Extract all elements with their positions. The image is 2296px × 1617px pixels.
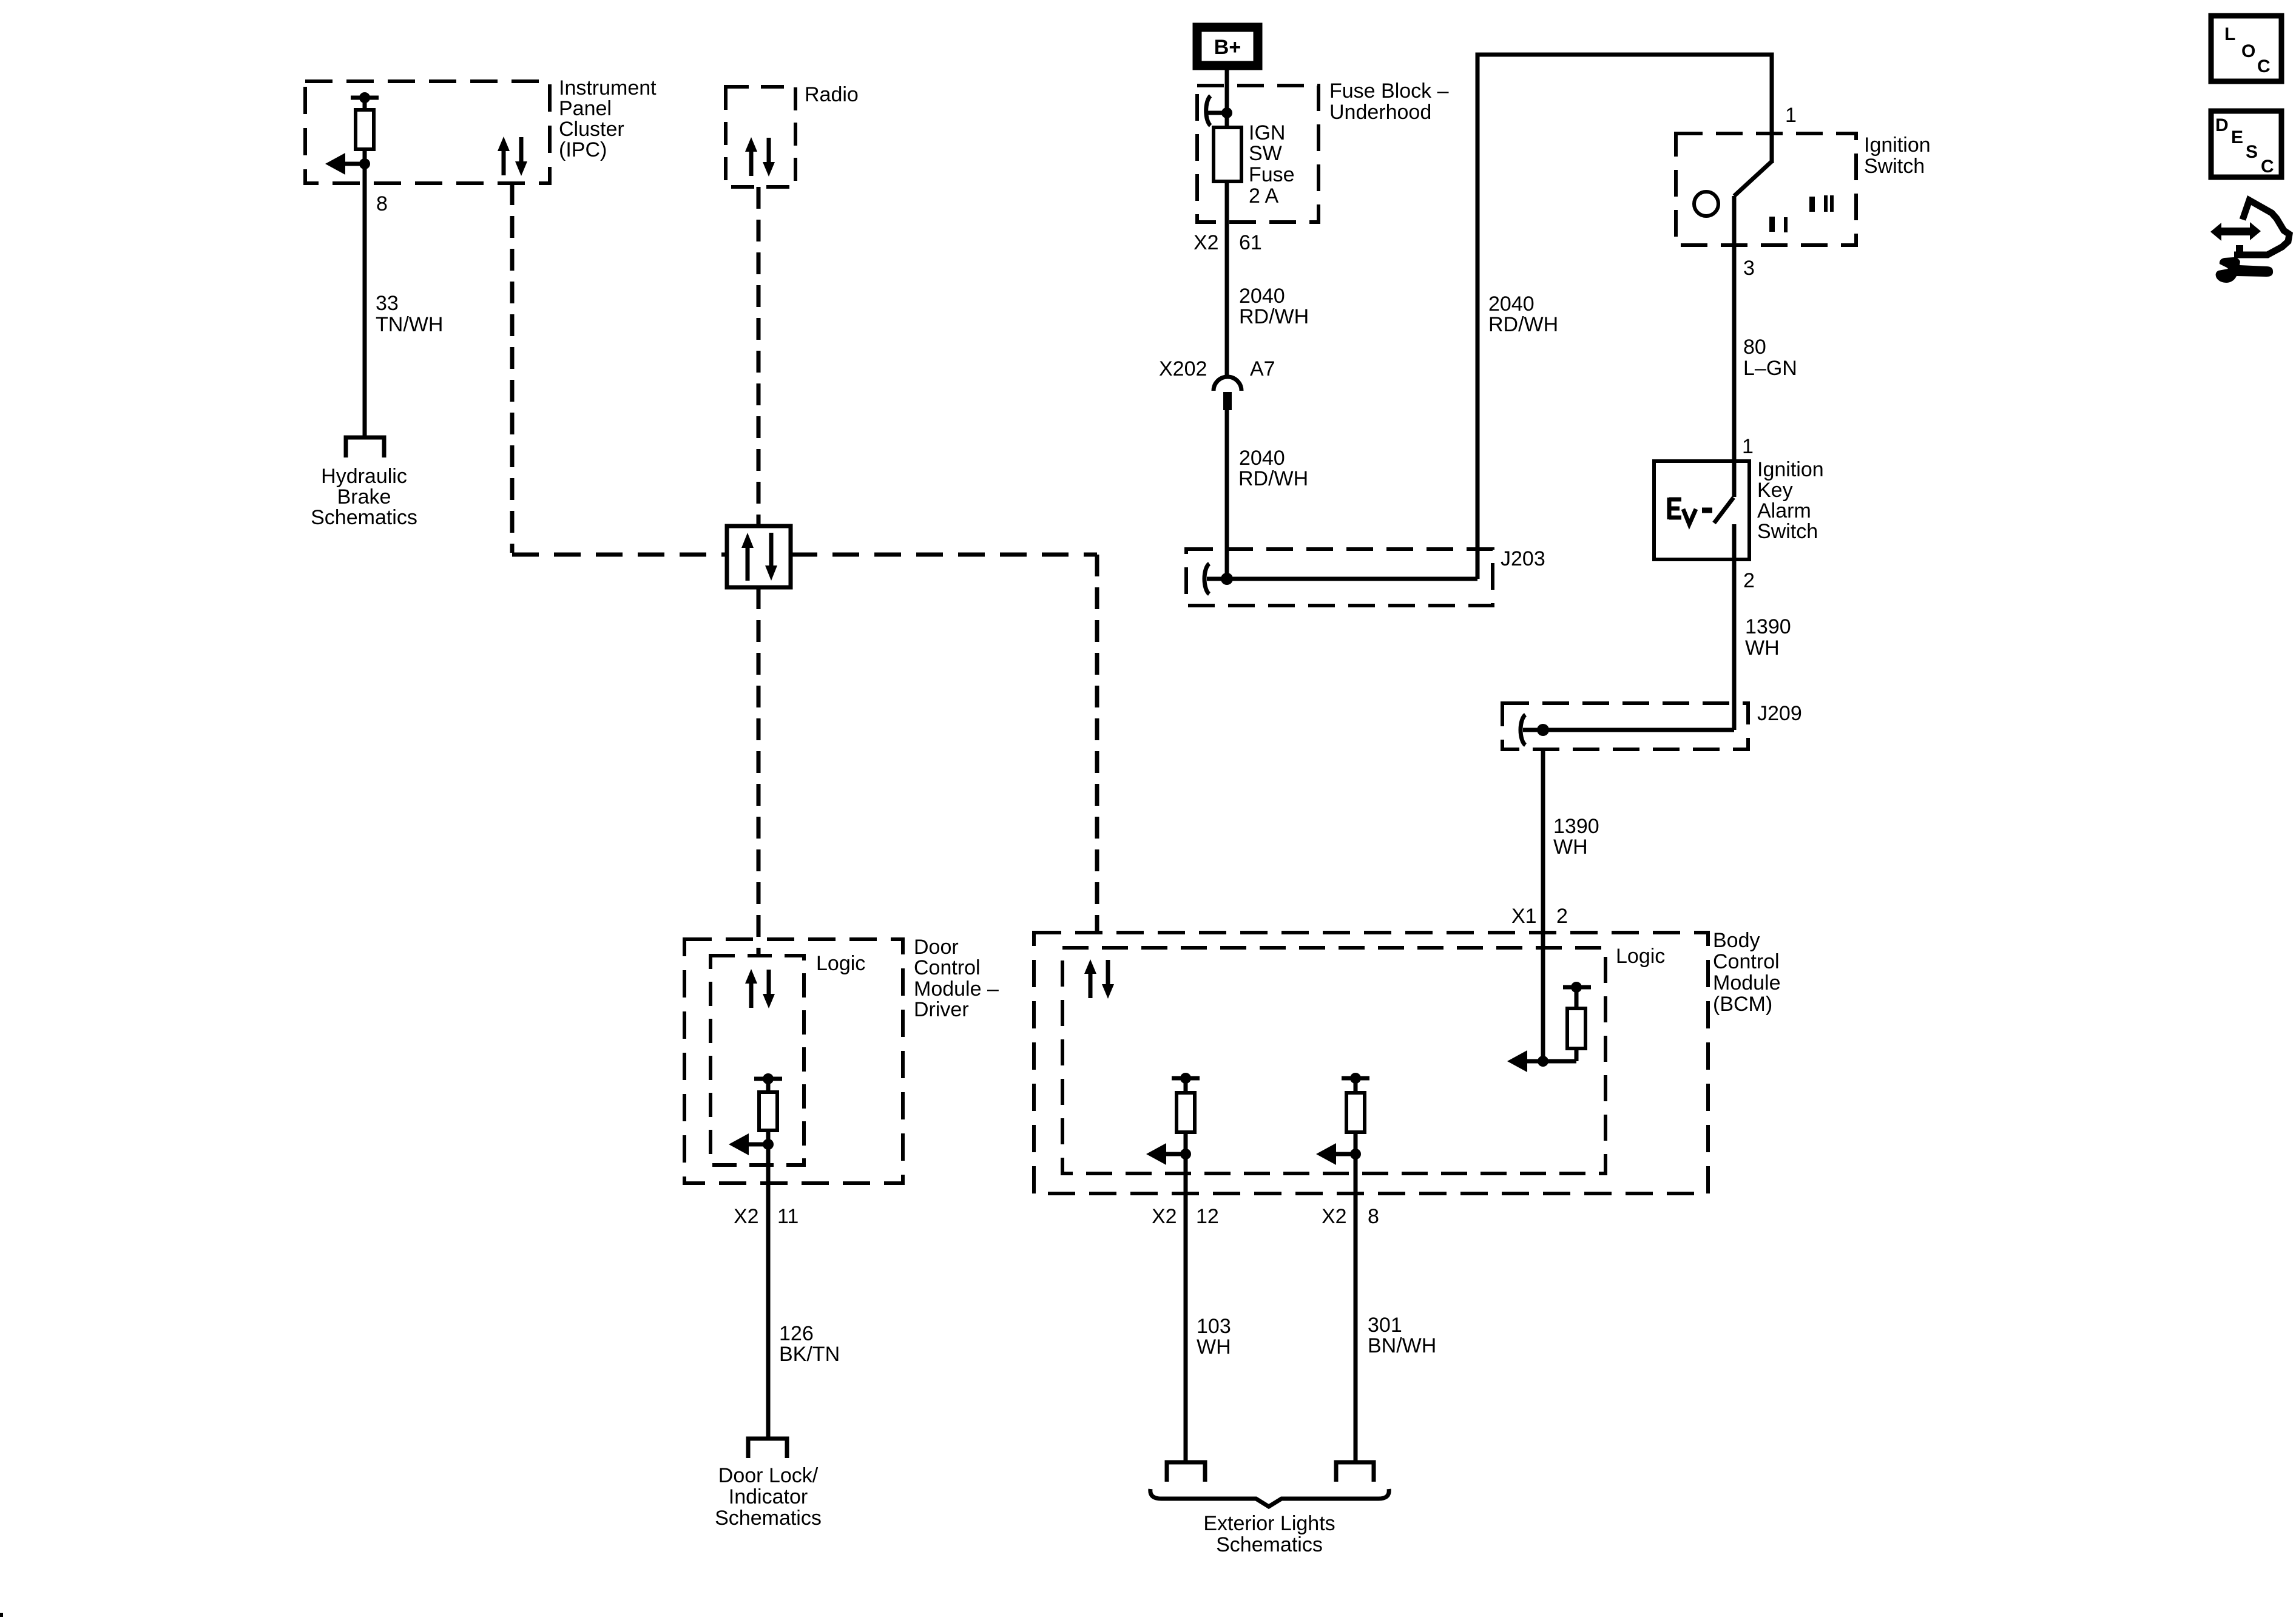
svg-text:Schematics: Schematics: [715, 1507, 822, 1530]
wire 1390 WH lower: [1541, 749, 1545, 1061]
svg-text:1390: 1390: [1553, 815, 1599, 838]
wire label 126 BK/TN: [779, 1322, 840, 1366]
double arrow icon: [2210, 222, 2261, 241]
pin X2 8 labels: [1322, 1205, 1379, 1228]
splice pack arrows symbol: [746, 547, 750, 581]
wire T-bar to resistor A: [1184, 1078, 1188, 1093]
wire J209 horizontal: [1543, 728, 1734, 732]
alarm switch key glyph v: [1683, 509, 1696, 524]
svg-text:Control: Control: [1713, 950, 1780, 973]
splice J209 dashed box: [1502, 703, 1748, 749]
junction dot J203: [1221, 573, 1233, 585]
svg-text:2: 2: [1556, 905, 1568, 928]
J203 terminal hook: [1204, 564, 1209, 594]
wire 103 WH: [1184, 1154, 1188, 1462]
IPC label text: [559, 76, 657, 161]
svg-text:Door: Door: [914, 936, 959, 959]
wire B+ to fuse: [1225, 66, 1229, 127]
wire T-bar to resistor BCM right: [1575, 987, 1579, 1008]
LOC letters: [2224, 24, 2271, 76]
fuse IGN SW 2A: [1214, 127, 1241, 181]
svg-text:TN/WH: TN/WH: [376, 313, 443, 336]
DESC letters: [2215, 115, 2274, 177]
Ignition Switch label: [1864, 133, 1931, 178]
svg-text:2: 2: [1743, 569, 1755, 592]
wire fuse to X202: [1225, 181, 1229, 377]
off-page bracket exterior lights right: [1336, 1462, 1374, 1482]
svg-text:33: 33: [376, 292, 399, 315]
alarm switch key glyph E: [1669, 498, 1681, 519]
Door Control Module outer dashed box: [684, 939, 903, 1183]
svg-text:(IPC): (IPC): [559, 138, 607, 161]
Exterior Lights Schematics label: [1203, 1512, 1335, 1556]
wire label 2040 RD/WH lower: [1238, 447, 1308, 490]
svg-text:Control: Control: [914, 956, 981, 979]
BCM Logic label: [1616, 945, 1665, 968]
dashed serial data wire IPC down: [510, 183, 515, 553]
DCM internal arrow to logic: [747, 1143, 768, 1147]
pin X1 2 labels: [1511, 905, 1568, 928]
svg-text:Module –: Module –: [914, 977, 999, 1001]
svg-text:Body: Body: [1713, 929, 1760, 952]
junction dot B+ feed: [1221, 107, 1232, 118]
wire resistor down BCM right: [1575, 1048, 1579, 1061]
svg-text:WH: WH: [1745, 636, 1780, 660]
Radio serial data arrows symbol: [749, 149, 754, 176]
Body Control Module outer dashed box: [1034, 933, 1708, 1193]
resistor BCM output B: [1346, 1093, 1365, 1132]
svg-text:Driver: Driver: [914, 998, 969, 1021]
svg-text:1390: 1390: [1745, 615, 1791, 638]
svg-text:O: O: [2241, 41, 2255, 61]
pin X2 61 labels: [1194, 231, 1262, 254]
svg-text:X2: X2: [1322, 1205, 1347, 1228]
dashed serial data wire to BCM: [1095, 555, 1099, 933]
wire resistor to junction A: [1184, 1132, 1188, 1154]
junction dot A: [1180, 1149, 1191, 1160]
svg-text:Door Lock/: Door Lock/: [718, 1464, 819, 1487]
IPC internal node dot: [359, 92, 370, 103]
Instrument Panel Cluster (IPC) dashed box: [305, 81, 550, 183]
svg-text:Switch: Switch: [1864, 155, 1925, 178]
wire resistor to junction B: [1354, 1132, 1358, 1154]
pin X2 12 labels: [1152, 1205, 1219, 1228]
svg-text:X2: X2: [1194, 231, 1219, 254]
svg-text:2 A: 2 A: [1249, 184, 1278, 208]
svg-text:Cluster: Cluster: [559, 118, 624, 141]
Ignition Key Alarm Switch label: [1757, 458, 1824, 543]
pin 2 label: [1743, 569, 1755, 592]
Fuse Block Underhood dashed box: [1197, 86, 1319, 222]
DCM internal node dot: [763, 1073, 774, 1084]
junction dot B: [1350, 1149, 1361, 1160]
DESC icon box: [2211, 111, 2281, 177]
wire label 2040 RD/WH upper: [1239, 285, 1309, 328]
J209 label: [1757, 702, 1802, 725]
junction dot IPC: [359, 158, 370, 169]
wire label 103 WH: [1197, 1315, 1231, 1359]
pin 1 ignition switch label: [1785, 104, 1797, 127]
ignition switch blade: [1734, 161, 1772, 196]
svg-text:8: 8: [376, 192, 388, 215]
LOC icon box: [2211, 16, 2281, 81]
svg-text:3: 3: [1743, 257, 1755, 280]
wrench icon: [2216, 257, 2274, 283]
IPC internal supply T-bar: [351, 96, 379, 100]
BCM internal node dot A: [1180, 1073, 1191, 1084]
svg-text:Module: Module: [1713, 971, 1781, 994]
BCM internal horizontal to arrow: [1525, 1059, 1576, 1064]
svg-text:SW: SW: [1249, 142, 1282, 165]
dashed serial data wire horizontal right: [791, 553, 1097, 557]
inline connector X202 A7 labels: [1159, 357, 1275, 380]
splice pack serial data box: [727, 526, 791, 587]
ignition switch position marks: [1809, 197, 1815, 212]
svg-text:Indicator: Indicator: [729, 1485, 808, 1508]
resistor DCM input: [759, 1092, 777, 1130]
pin 3 label: [1743, 257, 1755, 280]
off-page bracket Door Lock: [748, 1439, 787, 1458]
svg-text:Brake: Brake: [337, 485, 391, 508]
svg-text:L–GN: L–GN: [1743, 357, 1797, 380]
svg-text:Ignition: Ignition: [1864, 133, 1931, 157]
svg-text:Schematics: Schematics: [311, 506, 417, 529]
BCM internal node dot B: [1350, 1073, 1361, 1084]
svg-text:Ignition: Ignition: [1757, 458, 1824, 481]
svg-text:X1: X1: [1511, 905, 1537, 928]
wire label 301 BN/WH: [1368, 1314, 1436, 1357]
page artifact dot: [0, 1613, 3, 1617]
Ignition Key Alarm Switch box: [1654, 461, 1749, 559]
svg-text:RD/WH: RD/WH: [1488, 313, 1558, 336]
wire label 1390 WH lower: [1553, 815, 1599, 859]
splice J203 dashed box: [1186, 549, 1493, 606]
B+ label: [1214, 36, 1241, 59]
IPC serial data arrows symbol: [502, 148, 506, 175]
wire label 2040 RD/WH riser: [1488, 292, 1558, 336]
svg-text:B+: B+: [1214, 36, 1241, 59]
svg-text:Switch: Switch: [1757, 520, 1818, 543]
wire J203 horizontal: [1227, 577, 1477, 581]
wire 2040 RD/WH riser: [1477, 55, 1772, 579]
BCM internal arrow A: [1164, 1152, 1186, 1156]
svg-text:WH: WH: [1197, 1335, 1231, 1359]
J203 label: [1501, 547, 1545, 570]
svg-text:Exterior Lights: Exterior Lights: [1203, 1512, 1335, 1535]
svg-text:1: 1: [1742, 435, 1754, 458]
svg-text:Schematics: Schematics: [1216, 1533, 1323, 1556]
svg-text:Radio: Radio: [805, 83, 859, 106]
svg-text:X202: X202: [1159, 357, 1207, 380]
wire label 1390 WH upper: [1745, 615, 1791, 660]
pin X2 11 labels: [734, 1205, 799, 1228]
svg-text:2040: 2040: [1488, 292, 1535, 316]
wire label 80 L-GN: [1743, 336, 1797, 380]
wire resistor to junction: [363, 149, 367, 164]
pin 8 label: [376, 192, 388, 215]
svg-text:X2: X2: [734, 1205, 759, 1228]
junction dot J209: [1537, 724, 1549, 736]
BCM Logic inner dashed box: [1062, 948, 1606, 1173]
svg-text:C: C: [2257, 56, 2271, 76]
DCM internal T-bar: [754, 1077, 782, 1081]
svg-text:Logic: Logic: [816, 952, 865, 975]
svg-text:Alarm: Alarm: [1757, 499, 1811, 522]
wire X202 to J203: [1225, 410, 1229, 579]
pin 1 alarm switch label: [1742, 435, 1754, 458]
svg-text:L: L: [2224, 24, 2235, 44]
svg-text:80: 80: [1743, 336, 1766, 359]
svg-text:61: 61: [1239, 231, 1262, 254]
svg-text:126: 126: [779, 1322, 814, 1345]
svg-text:C: C: [2261, 157, 2274, 177]
svg-text:Fuse: Fuse: [1249, 163, 1295, 186]
svg-text:D: D: [2215, 115, 2229, 135]
svg-text:Panel: Panel: [559, 97, 612, 120]
svg-text:2040: 2040: [1239, 447, 1285, 470]
wire 126 BK/TN: [766, 1144, 771, 1439]
BCM internal T-bar left A: [1172, 1076, 1200, 1081]
BCM serial data arrows symbol: [1089, 971, 1093, 998]
B+ power symbol box: [1197, 27, 1258, 66]
BCM internal T-bar left B: [1342, 1076, 1369, 1081]
svg-text:11: 11: [777, 1205, 799, 1228]
dashed serial data wire to DCM: [757, 587, 761, 956]
J209 terminal hook: [1521, 715, 1525, 745]
svg-text:IGN: IGN: [1249, 121, 1285, 144]
dashed serial data wire horizontal left: [512, 553, 727, 557]
svg-text:1: 1: [1785, 104, 1797, 127]
svg-text:A7: A7: [1250, 357, 1275, 380]
wire 33 TN/WH: [363, 164, 367, 437]
Fuse Block label: [1329, 79, 1449, 124]
svg-text:Hydraulic: Hydraulic: [321, 465, 407, 488]
fuse block terminal hook: [1206, 96, 1210, 126]
svg-text:RD/WH: RD/WH: [1238, 467, 1308, 490]
svg-text:Key: Key: [1757, 479, 1793, 502]
svg-text:X2: X2: [1152, 1205, 1177, 1228]
wire resistor to junction DCM: [766, 1130, 771, 1144]
dashed serial data wire Radio down: [757, 187, 761, 526]
svg-text:8: 8: [1368, 1205, 1379, 1228]
svg-text:301: 301: [1368, 1314, 1402, 1337]
wire label 33 TN/WH: [376, 292, 443, 336]
resistor IPC indicator: [356, 110, 374, 149]
Radio dashed box: [726, 87, 795, 187]
DCM Logic inner dashed box: [711, 956, 804, 1165]
ignition switch pivot circle: [1694, 192, 1718, 216]
svg-text:WH: WH: [1553, 836, 1588, 859]
svg-text:BK/TN: BK/TN: [779, 1343, 840, 1366]
connector claw icon: [2234, 200, 2289, 255]
wire T-bar to resistor: [363, 98, 367, 110]
off-page bracket Hydraulic Brake: [346, 437, 384, 457]
alarm switch linkage dash: [1702, 508, 1712, 513]
svg-text:Fuse Block –: Fuse Block –: [1329, 79, 1449, 103]
Radio label: [805, 83, 859, 106]
svg-text:Underhood: Underhood: [1329, 101, 1431, 124]
alarm switch wire in: [1732, 469, 1737, 497]
DCM serial data arrows symbol: [749, 981, 754, 1008]
resistor BCM output A: [1177, 1093, 1195, 1132]
svg-text:2040: 2040: [1239, 285, 1285, 308]
svg-text:BN/WH: BN/WH: [1368, 1334, 1436, 1357]
BCM label text: [1713, 929, 1781, 1016]
svg-text:Logic: Logic: [1616, 945, 1665, 968]
junction dot BCM right: [1538, 1056, 1548, 1067]
brace exterior lights: [1150, 1489, 1389, 1507]
DCM label text: [914, 936, 999, 1021]
svg-text:S: S: [2246, 142, 2258, 162]
svg-text:J203: J203: [1501, 547, 1545, 570]
alarm switch blade: [1714, 498, 1734, 523]
svg-text:E: E: [2231, 127, 2243, 147]
BCM internal node dot right: [1571, 982, 1582, 993]
resistor BCM ignition input: [1567, 1008, 1585, 1048]
svg-text:12: 12: [1196, 1205, 1219, 1228]
junction dot DCM: [763, 1139, 774, 1150]
alarm switch wire out: [1732, 524, 1737, 730]
Door Lock Indicator Schematics label: [715, 1464, 822, 1530]
BCM internal T-bar right: [1563, 985, 1591, 990]
svg-text:J209: J209: [1757, 702, 1802, 725]
BCM internal arrow B: [1334, 1152, 1356, 1156]
Hydraulic Brake Schematics label: [311, 465, 417, 529]
wire T-bar to resistor DCM: [766, 1079, 771, 1092]
IPC internal arrow to logic: [343, 162, 365, 166]
svg-text:RD/WH: RD/WH: [1239, 305, 1309, 328]
svg-text:Instrument: Instrument: [559, 76, 657, 100]
fuse label: [1249, 121, 1295, 208]
DCM Logic label: [816, 952, 865, 975]
svg-text:(BCM): (BCM): [1713, 993, 1772, 1016]
wire T-bar to resistor B: [1354, 1078, 1358, 1093]
Ignition Switch dashed box: [1676, 133, 1856, 245]
off-page bracket exterior lights left: [1167, 1462, 1205, 1482]
svg-text:103: 103: [1197, 1315, 1231, 1338]
wire 301 BN/WH: [1354, 1154, 1358, 1462]
wire ignition pin 3: [1732, 196, 1737, 469]
inline connector X202 symbol: [1214, 377, 1241, 391]
